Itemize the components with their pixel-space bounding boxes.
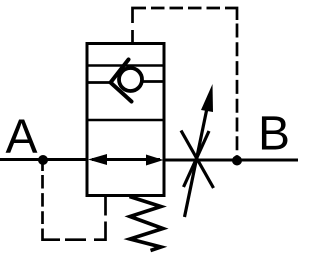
check valve flow line (left segment) bbox=[87, 81, 112, 84]
bidirectional flow path line bbox=[92, 158, 160, 161]
svg-text:B: B bbox=[258, 108, 290, 161]
right arrowhead bbox=[146, 155, 164, 166]
node at B side bbox=[232, 156, 242, 166]
pilot line bottom: corner dash lower-left bbox=[43, 229, 61, 240]
pilot line top: corner dash upper-right bbox=[225, 8, 237, 20]
lower divider line bbox=[87, 119, 164, 122]
check valve seat bbox=[111, 60, 132, 102]
pilot line bottom: solid stub at valve body bottom bbox=[104, 196, 107, 216]
port A line bbox=[0, 158, 88, 161]
node at A bbox=[38, 155, 48, 165]
spring bbox=[130, 197, 164, 251]
port B line bbox=[163, 159, 298, 162]
pilot line bottom: corner dash lower-right bbox=[94, 222, 106, 240]
valve body envelope bbox=[87, 44, 164, 196]
pilot line bottom: solid stub below node A bbox=[41, 160, 44, 171]
check valve ball bbox=[119, 68, 142, 91]
pilot line right: vertical dashes down to node bbox=[236, 24, 239, 161]
pilot line top: corner dash upper-left bbox=[133, 8, 147, 23]
throttle X stroke 2 bbox=[184, 131, 210, 187]
left arrowhead bbox=[88, 154, 107, 165]
adjustment arrowhead bbox=[201, 84, 213, 112]
upper divider line bbox=[87, 64, 164, 67]
pilot line bottom: left leg dashes bbox=[41, 175, 44, 224]
pilot line bottom: horizontal dash bbox=[65, 238, 86, 241]
pilot line top: solid stub at valve body top bbox=[131, 30, 134, 43]
adjustment arrow shaft bbox=[185, 101, 209, 217]
pilot line top: horizontal dashes bbox=[151, 7, 225, 10]
svg-text:A: A bbox=[6, 111, 38, 164]
throttle X stroke 1 bbox=[181, 131, 214, 189]
check valve flow line (right segment) bbox=[143, 80, 164, 83]
